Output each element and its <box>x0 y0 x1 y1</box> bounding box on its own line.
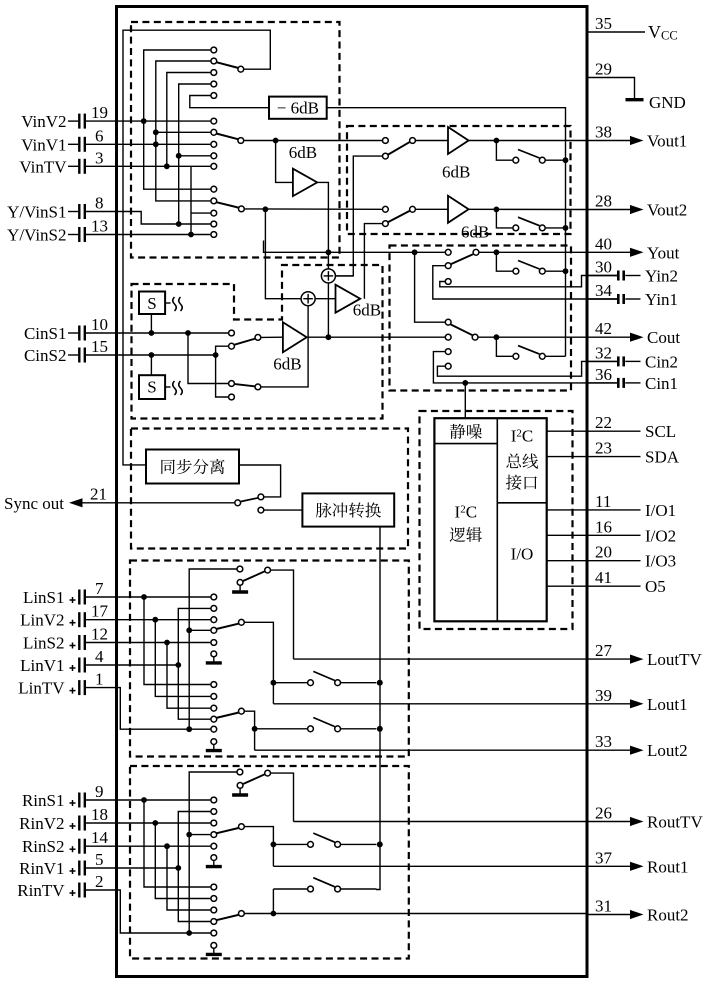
junction R out1 aux bus <box>377 842 383 848</box>
svg-text:4: 4 <box>95 647 104 666</box>
svg-text:RinTV: RinTV <box>17 881 65 900</box>
svg-text:42: 42 <box>595 319 612 338</box>
junction L out1 aux bus <box>377 680 383 686</box>
audio contact L c2 r1 <box>211 682 217 688</box>
svg-text:36: 36 <box>595 365 612 384</box>
audio contact R c2 r1 <box>211 884 217 890</box>
wire adder1 output <box>335 275 353 277</box>
matrix contact cluster2 row5 <box>211 163 217 169</box>
switch arm cluster1 <box>216 62 243 72</box>
junction R V1 bus <box>175 865 181 871</box>
amplifier 6dB composite <box>336 285 382 320</box>
input pin 7 LinS1 with capacitor <box>23 579 104 607</box>
input pin 15 CinS2 with capacitor <box>24 337 108 365</box>
svg-text:6dB: 6dB <box>461 223 489 242</box>
svg-text:Yin1: Yin1 <box>645 290 678 309</box>
svg-text:VinV1: VinV1 <box>21 135 66 154</box>
wire Y-amp input <box>276 141 293 183</box>
wire Rout1 row <box>273 865 586 867</box>
svg-text:26: 26 <box>595 804 612 823</box>
svg-text:RoutTV: RoutTV <box>647 813 703 832</box>
junction L out2 aux bus <box>377 726 383 732</box>
wire L S1 bus <box>141 594 210 684</box>
svg-text:GND: GND <box>649 93 686 112</box>
wire pulse converter input <box>264 509 302 511</box>
svg-text:Cin1: Cin1 <box>645 374 678 393</box>
dashed box: Y/C record switches <box>390 246 572 391</box>
audio contact R c1 r4 <box>211 832 217 838</box>
wire amp3 output up <box>315 298 335 300</box>
wire L c2 arm out <box>245 711 255 750</box>
matrix contact cluster3 row3 <box>211 210 217 216</box>
svg-text:I2C: I2C <box>511 427 534 446</box>
pin 42 Cout <box>587 319 681 347</box>
wire Yout row <box>264 241 445 253</box>
wire LV1 row <box>86 664 178 666</box>
I2C block divider vertical <box>496 418 498 621</box>
junction Yout record branch <box>494 249 500 255</box>
switch R out1 aux <box>273 833 376 847</box>
wire adder2 chroma input <box>307 306 309 338</box>
junction audio bus Lout2 aux <box>377 726 383 732</box>
junction chroma line adder1 <box>326 334 332 340</box>
junction record bus Vout1 <box>563 157 569 163</box>
svg-text:6dB: 6dB <box>273 355 301 374</box>
matrix contact cluster3 row1 <box>211 186 217 192</box>
svg-text:I/O2: I/O2 <box>645 526 676 545</box>
summer adder1 <box>321 269 335 283</box>
pin 31 Rout2 <box>587 897 689 925</box>
svg-text:6: 6 <box>95 126 104 145</box>
switch L out1 aux <box>273 671 376 685</box>
input pin 19 VinV2 with capacitor <box>21 103 108 131</box>
dashed box: left audio L selector <box>130 561 409 757</box>
audio contact R c2 r4 <box>211 919 217 925</box>
wire Yin1 to contact <box>433 266 617 299</box>
svg-text:LinTV: LinTV <box>18 679 65 698</box>
svg-text:I/O3: I/O3 <box>645 552 676 571</box>
wire Rout2 row <box>273 913 586 915</box>
svg-text:Cin2: Cin2 <box>645 352 678 371</box>
svg-text:30: 30 <box>595 258 612 277</box>
input pin 9 RinS1 with capacitor <box>22 782 104 810</box>
pin 38 Vout1 <box>587 123 688 151</box>
svg-text:29: 29 <box>595 60 612 79</box>
dashed box: I2C section <box>420 411 573 629</box>
audio contact R c2 mute <box>211 943 217 949</box>
pin 37 Rout1 <box>587 848 689 876</box>
wire VinV1 row <box>86 143 210 145</box>
wire L V2 bus <box>152 617 210 697</box>
svg-text:34: 34 <box>595 281 613 300</box>
svg-text:Lout1: Lout1 <box>647 695 688 714</box>
junction V1 bus <box>153 141 159 147</box>
wire Vout2 bus to adder2 <box>265 209 301 298</box>
matrix contact cluster3 row5 <box>211 232 217 238</box>
svg-text:6dB: 6dB <box>353 301 381 320</box>
wire chroma upper out <box>261 336 283 338</box>
pin 11 I/O1 <box>587 492 677 520</box>
wire SCL stub <box>547 430 587 432</box>
wire Y/VinS2 row <box>86 234 210 236</box>
wire mute line to I2C <box>464 383 466 418</box>
audio contact L c1 r1 <box>211 594 217 600</box>
wire Vout2 bus <box>245 208 382 210</box>
I2C bus cell divider <box>497 502 546 504</box>
svg-text:19: 19 <box>91 103 108 122</box>
junction audio bus Lout1 aux <box>377 680 383 686</box>
junction L out1 aux <box>271 680 277 686</box>
ground L c1 <box>206 657 222 663</box>
switch arm L c2 <box>216 708 244 718</box>
I2C block outline <box>434 418 546 621</box>
label I2C bus interface <box>506 427 538 490</box>
wire RTV row <box>86 890 210 933</box>
pulse converter box <box>302 493 394 526</box>
wire LS1 row <box>86 596 210 598</box>
matrix contact cluster2 row2 <box>211 129 217 135</box>
svg-text:Yout: Yout <box>647 243 680 262</box>
wire audio bus from pulse converter <box>376 527 380 890</box>
matrix contact cluster2 row4 <box>211 153 217 159</box>
wire Y/VinS1 row with step <box>86 212 210 225</box>
input pin 13 Y/VinS2 with capacitor <box>7 217 108 245</box>
summer adder2 <box>301 292 315 306</box>
matrix contact cluster3 row4 <box>211 221 217 227</box>
wire R S2 bus <box>164 843 210 910</box>
audio contact R c2 r2 <box>211 896 217 902</box>
wire matrix vertical S2 bus <box>190 166 192 234</box>
wire -6dB output to record bus <box>327 108 566 357</box>
wire Yout pivot to pin40 <box>479 251 586 253</box>
wire Yin2 to contact <box>440 276 617 287</box>
input pin 14 RinS2 with capacitor <box>22 828 109 856</box>
input pin 5 RinV1 with capacitor <box>19 850 103 878</box>
svg-text:Yin2: Yin2 <box>645 267 678 286</box>
svg-text:VinTV: VinTV <box>19 157 67 176</box>
switch chroma upper <box>229 330 261 349</box>
trap filter S box bottom <box>139 375 182 399</box>
junction audio bus Rout1 aux <box>377 842 383 848</box>
matrix contact cluster2 row1 <box>211 118 217 124</box>
wire L S2 bus <box>164 640 210 709</box>
junction CinS1 S-tap <box>149 330 155 336</box>
wire CinS1 row <box>86 332 228 334</box>
pin 20 I/O3 <box>587 543 677 571</box>
junction R TV c1 jog <box>186 832 210 838</box>
wire RTV switch out <box>271 773 294 821</box>
audio contact R c1 r3 <box>211 820 217 826</box>
wire Cout pivot to pin42 <box>479 336 587 338</box>
wire matrix vertical TV bus <box>167 73 211 167</box>
input pin 2 RinTV with capacitor <box>17 872 103 900</box>
svg-text:LinV2: LinV2 <box>20 611 64 630</box>
wire VinV2 row <box>86 120 210 122</box>
input pin 4 LinV1 with capacitor <box>20 647 104 675</box>
svg-text:6dB: 6dB <box>289 143 317 162</box>
matrix contact cluster1 row5 <box>211 93 217 99</box>
svg-text:35: 35 <box>595 14 612 33</box>
switch Vout1 contacts <box>383 138 416 159</box>
switch Cout contacts <box>445 319 478 369</box>
input pin 8 Y/VinS1 with capacitor <box>7 194 103 222</box>
switch Vout1 record <box>496 141 565 164</box>
junction Vout1 record branch <box>494 138 500 144</box>
svg-text:41: 41 <box>595 568 612 587</box>
svg-text:15: 15 <box>91 337 108 356</box>
switch arm R c1 <box>216 824 244 834</box>
wire Vout2 amp out to pin28 <box>469 208 587 210</box>
dashed box: sync section <box>131 429 408 549</box>
dashed box: video output amplifiers <box>347 126 571 234</box>
svg-text:I2C: I2C <box>455 503 478 522</box>
junction record bus Yout <box>563 268 569 274</box>
wire Vout1 amp out to pin38 <box>469 140 587 142</box>
switch sync select <box>235 494 264 513</box>
svg-text:S: S <box>147 294 156 313</box>
svg-text:28: 28 <box>595 192 612 211</box>
svg-text:5: 5 <box>95 850 104 869</box>
wire R S1 bus <box>141 797 210 887</box>
pin 16 I/O2 <box>587 517 677 545</box>
junction R out2 aux <box>271 911 277 917</box>
audio contact L c1 r4 <box>211 627 217 633</box>
switch arm R c2 <box>216 911 244 921</box>
junction Vout2 to adder2 <box>263 206 269 212</box>
audio contact L c2 r3 <box>211 705 217 711</box>
wire R c2 arm out <box>245 913 274 915</box>
switch Vout2 contacts <box>383 206 416 226</box>
matrix contact cluster1 row2 <box>211 58 217 64</box>
svg-text:S: S <box>147 378 156 397</box>
audio contact L c2 r2 <box>211 694 217 700</box>
svg-text:− 6dB: − 6dB <box>277 98 319 117</box>
pin 29 GND <box>587 60 686 113</box>
IC body outline <box>117 7 588 977</box>
wire LS2 row <box>86 642 210 644</box>
svg-text:Lout2: Lout2 <box>647 741 688 760</box>
wire matrix vertical V2 bus <box>144 50 211 189</box>
svg-text:3: 3 <box>95 148 104 167</box>
svg-text:Rout2: Rout2 <box>647 906 689 925</box>
svg-text:Vout2: Vout2 <box>647 201 687 220</box>
wire RS2 row <box>86 845 210 847</box>
svg-text:RinS1: RinS1 <box>22 791 65 810</box>
wire LTV switch out <box>271 570 294 659</box>
input pin 12 LinS2 with capacitor <box>23 625 108 653</box>
wire R out2 aux drop <box>272 889 274 914</box>
svg-text:Vout1: Vout1 <box>647 132 687 151</box>
svg-text:LinS1: LinS1 <box>23 588 65 607</box>
svg-text:22: 22 <box>595 413 612 432</box>
junction TV bus <box>164 163 170 169</box>
svg-text:13: 13 <box>91 217 108 236</box>
svg-text:21: 21 <box>90 485 107 504</box>
svg-text:RinV2: RinV2 <box>19 814 64 833</box>
wire LV2 row <box>86 619 210 621</box>
audio contact L c1 mute <box>211 651 217 657</box>
svg-text:33: 33 <box>595 732 612 751</box>
audio contact R c1 r2 <box>211 809 217 815</box>
switch arm cluster2 <box>216 134 243 144</box>
junction CinS2 S-tap <box>149 352 155 358</box>
pin 23 SDA <box>587 439 680 467</box>
svg-text:10: 10 <box>91 315 108 334</box>
svg-text:18: 18 <box>91 805 108 824</box>
audio contact L c2 mute <box>211 739 217 745</box>
pin 26 RoutTV <box>587 804 704 832</box>
junction CinS2 branch <box>213 352 219 358</box>
svg-text:SCL: SCL <box>645 422 676 441</box>
amplifier 6dB Vout2 <box>448 196 489 242</box>
junction V2 bus <box>141 118 147 124</box>
junction Cout record branch <box>494 334 500 340</box>
switch R out2 aux <box>273 878 376 892</box>
wire matrix vertical S1 bus <box>179 84 211 224</box>
svg-text:LinV1: LinV1 <box>20 656 64 675</box>
svg-text:Y/VinS2: Y/VinS2 <box>7 226 66 245</box>
junction S1 bus <box>176 221 182 227</box>
svg-text:6dB: 6dB <box>442 163 470 182</box>
switch Cout record <box>496 337 565 359</box>
audio contact L c1 r3 <box>211 617 217 623</box>
wire R V2 bus <box>152 820 210 898</box>
pin 35 Vcc <box>587 14 678 43</box>
wire LTV row <box>86 688 210 730</box>
svg-text:CinS1: CinS1 <box>24 324 67 343</box>
svg-text:1: 1 <box>95 670 104 689</box>
svg-text:7: 7 <box>95 579 104 598</box>
wire R TV bus <box>189 772 236 933</box>
ground LTV switch <box>232 586 248 592</box>
wire Vout1 lower contact from adder1 <box>335 156 382 276</box>
wire O5 stub <box>547 585 587 587</box>
input pin 17 LinV2 with capacitor <box>20 602 108 630</box>
wire feedback loop top <box>123 30 270 465</box>
switch Vout2 record <box>496 209 565 230</box>
input pin 6 VinV1 with capacitor <box>21 126 103 154</box>
input pin 1 LinTV with capacitor <box>18 670 103 698</box>
svg-text:9: 9 <box>95 782 104 801</box>
junction L V1 bus <box>175 662 181 668</box>
junction L out2 aux <box>252 726 258 732</box>
svg-text:2: 2 <box>95 872 104 891</box>
attenuator -6dB box <box>269 97 327 119</box>
audio contact R c2 r5 <box>211 930 217 936</box>
sync separator box <box>146 450 239 484</box>
dashed box: chroma/sum section <box>132 265 383 419</box>
wire L c1 arm out <box>245 622 274 704</box>
junction S2 bus <box>188 232 194 238</box>
dashed box: video input selector <box>131 22 340 258</box>
wire RV1 row <box>86 867 178 869</box>
junction Vout2 record branch <box>494 207 500 213</box>
audio contact R c1 r1 <box>211 797 217 803</box>
pin 40 Yout <box>587 234 680 262</box>
audio contact L c2 r4 <box>211 716 217 722</box>
svg-text:I/O: I/O <box>511 545 534 564</box>
wire RoutTV row <box>294 821 587 823</box>
svg-text:CinS2: CinS2 <box>24 346 67 365</box>
junction CinS1 branch <box>185 330 191 336</box>
svg-text:38: 38 <box>595 123 612 142</box>
junction Vout1 to Y-amp <box>273 138 279 144</box>
switch arm cluster3 <box>216 202 244 212</box>
svg-text:VinV2: VinV2 <box>21 112 66 131</box>
audio contact L c1 r2 <box>211 606 217 612</box>
svg-text:LoutTV: LoutTV <box>647 650 702 669</box>
input pin 10 CinS1 with capacitor <box>24 315 108 343</box>
junction mute tap on Cin1 <box>462 380 468 386</box>
pin 21 Sync out <box>4 485 234 513</box>
svg-text:12: 12 <box>91 625 108 644</box>
wire I/O3 stub <box>547 560 587 562</box>
wire R V1 bus <box>178 812 210 922</box>
label IO <box>511 545 534 564</box>
wire Vout2 switch to amp <box>416 208 448 210</box>
junction record bus Vout2 <box>563 225 569 231</box>
svg-text:14: 14 <box>91 828 109 847</box>
svg-text:RinV1: RinV1 <box>19 859 64 878</box>
wire sync separator output <box>239 465 281 497</box>
pin 32 Cin2 <box>587 343 679 371</box>
svg-text:O5: O5 <box>645 577 666 596</box>
junction R TV bus <box>186 930 192 936</box>
wire VinTV row <box>86 165 210 167</box>
junction S2 bus c3r3 jog <box>191 212 210 214</box>
svg-text:17: 17 <box>91 602 109 621</box>
wire SDA stub <box>547 456 587 458</box>
pin 30 Yin2 <box>587 258 679 286</box>
wire RV2 row <box>86 822 210 824</box>
matrix contact cluster1 row4 <box>211 81 217 87</box>
switch Yout contacts <box>445 249 479 284</box>
junction L TV bus <box>186 726 192 732</box>
amplifier 6dB Vout1 <box>442 127 470 182</box>
wire Vout2 lower contact from amp3 <box>364 224 382 299</box>
matrix contact cluster1 row1 <box>211 47 217 53</box>
wire Vout1 switch to amp <box>416 140 448 142</box>
svg-text:RinS2: RinS2 <box>22 837 65 856</box>
matrix contact cluster1 row3 <box>211 70 217 76</box>
junction Yout from Y-amp <box>326 249 332 255</box>
switch chroma lower <box>229 381 261 400</box>
switch LTV mute <box>237 566 271 585</box>
svg-text:32: 32 <box>595 343 612 362</box>
svg-text:23: 23 <box>595 439 612 458</box>
svg-text:16: 16 <box>595 517 612 536</box>
junction V1 bus row B <box>153 129 210 135</box>
wire chroma lower out <box>261 337 308 387</box>
pin 39 Lout1 <box>587 686 688 714</box>
ground RTV switch <box>232 789 248 795</box>
wire CinS2 to S-bottom <box>150 355 152 375</box>
svg-text:Sync out: Sync out <box>4 494 64 513</box>
svg-text:37: 37 <box>595 848 613 867</box>
wire R c1 arm out <box>245 827 274 867</box>
pin 27 LoutTV <box>587 641 703 669</box>
wire L V1 bus <box>178 608 210 719</box>
ground L c2 <box>206 745 222 751</box>
svg-text:Rout1: Rout1 <box>647 857 689 876</box>
input pin 3 VinTV with capacitor <box>19 148 103 176</box>
input pin 18 RinV2 with capacitor <box>19 805 108 833</box>
matrix contact cluster2 row3 <box>211 141 217 147</box>
svg-text:8: 8 <box>95 194 104 213</box>
pin 33 Lout2 <box>587 732 688 760</box>
wire Yout to C-switch top contact <box>415 252 445 322</box>
audio contact R c1 r5 <box>211 843 217 849</box>
